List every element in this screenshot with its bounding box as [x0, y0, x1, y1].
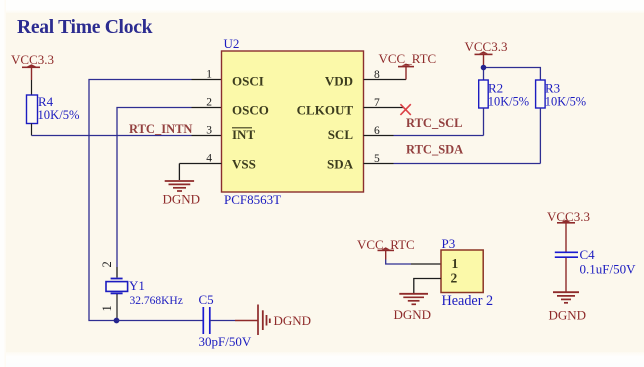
wire C5 to DGND — [210, 320, 258, 322]
svg-text:10K/5%: 10K/5% — [488, 95, 529, 109]
svg-text:C4: C4 — [580, 247, 596, 262]
svg-text:C5: C5 — [199, 292, 214, 307]
svg-text:VSS: VSS — [232, 157, 256, 172]
svg-text:RTC_SDA: RTC_SDA — [406, 143, 463, 157]
svg-text:VCC_RTC: VCC_RTC — [379, 51, 437, 66]
pin 3 INT (active low) — [206, 125, 255, 143]
svg-text:R4: R4 — [38, 94, 54, 109]
svg-text:1: 1 — [100, 305, 114, 311]
svg-text:OSCI: OSCI — [232, 74, 264, 89]
pin 7 CLKOUT — [297, 97, 404, 118]
svg-text:PCF8563T: PCF8563T — [224, 192, 281, 207]
wire VCC to R2/R3 — [484, 68, 541, 81]
svg-text:RTC_INTN: RTC_INTN — [129, 122, 192, 136]
pin 4 VSS — [179, 153, 255, 181]
resistor R4 — [27, 80, 80, 136]
power VCC3.3 (R4) — [11, 52, 54, 80]
svg-text:Header 2: Header 2 — [442, 293, 494, 309]
wire C4 to DGND — [565, 258, 567, 292]
wire VCC_RTC to P3 pin1 — [386, 260, 411, 265]
svg-text:CLKOUT: CLKOUT — [297, 103, 354, 118]
pin 5 SDA — [327, 153, 540, 172]
power VCC_RTC (pin 8) — [379, 51, 437, 67]
svg-text:Real Time Clock: Real Time Clock — [17, 17, 153, 38]
svg-text:U2: U2 — [224, 36, 240, 51]
ground DGND (C5, sideways) — [258, 305, 311, 336]
junction dot (crystal/C5) — [114, 318, 120, 324]
resistor R2 — [479, 80, 529, 136]
svg-text:0.1uF/50V: 0.1uF/50V — [580, 262, 637, 277]
header P3 — [441, 236, 493, 309]
power VCC3.3 (pullups) — [465, 39, 508, 68]
ground DGND (U2 VSS) — [163, 181, 201, 207]
svg-text:30pF/50V: 30pF/50V — [199, 334, 252, 349]
pin 2 OSCO — [206, 97, 269, 118]
svg-text:1: 1 — [452, 256, 459, 271]
pin 8 VDD — [325, 67, 406, 89]
junction dot — [481, 65, 487, 71]
resistor R3 — [536, 80, 587, 164]
svg-text:P3: P3 — [442, 236, 456, 251]
svg-text:SDA: SDA — [327, 157, 354, 172]
svg-text:SCL: SCL — [328, 127, 354, 142]
capacitor C4 — [555, 247, 636, 277]
power VCC_RTC (P3) — [357, 237, 415, 260]
wire pin1 to crystal bottom — [89, 80, 222, 321]
svg-text:4: 4 — [206, 153, 212, 165]
svg-text:2: 2 — [451, 271, 458, 286]
pin 6 SCL — [328, 125, 484, 142]
ground DGND (C4) — [549, 292, 587, 322]
svg-text:R2: R2 — [488, 81, 503, 96]
svg-text:DGND: DGND — [274, 313, 312, 328]
svg-text:DGND: DGND — [163, 192, 201, 207]
svg-text:OSCO: OSCO — [232, 103, 269, 118]
capacitor C5 — [199, 292, 252, 349]
crystal Y1 — [100, 261, 183, 320]
svg-text:RTC_SCL: RTC_SCL — [406, 116, 463, 130]
svg-text:10K/5%: 10K/5% — [545, 95, 586, 109]
svg-text:DGND: DGND — [549, 308, 587, 323]
wire pin2 to crystal top — [117, 108, 222, 278]
svg-text:1: 1 — [206, 69, 212, 81]
power VCC3.3 (C4) — [547, 209, 590, 252]
svg-text:VDD: VDD — [325, 74, 353, 89]
svg-text:3: 3 — [206, 125, 212, 137]
svg-text:32.768KHz: 32.768KHz — [130, 295, 183, 307]
svg-text:INT: INT — [232, 127, 255, 142]
IC U2 — [222, 36, 364, 207]
wire R4 to pin3 — [32, 135, 192, 137]
svg-text:10K/5%: 10K/5% — [38, 108, 80, 122]
svg-text:R3: R3 — [545, 81, 560, 96]
svg-text:2: 2 — [206, 97, 212, 109]
svg-text:DGND: DGND — [394, 307, 432, 322]
pin 1 OSCI — [206, 69, 264, 89]
svg-text:Y1: Y1 — [129, 278, 145, 293]
svg-text:2: 2 — [100, 261, 114, 267]
ground DGND (P3) — [394, 294, 432, 322]
wire crystal to C5 — [117, 320, 203, 322]
no-connect X (pin 7) — [400, 104, 410, 115]
pin 2 (P3) — [414, 271, 458, 294]
svg-text:VCC3.3: VCC3.3 — [465, 39, 508, 54]
